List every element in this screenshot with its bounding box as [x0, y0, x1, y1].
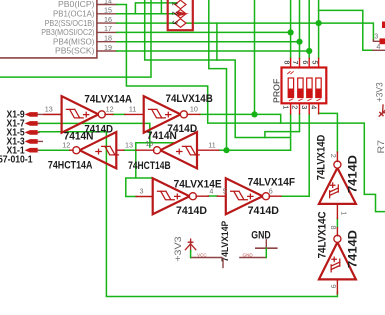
- svg-text:57-010-1: 57-010-1: [0, 155, 33, 166]
- svg-text:12: 12: [106, 105, 114, 114]
- svg-text:19: 19: [104, 43, 112, 52]
- svg-text:5: 5: [310, 60, 319, 64]
- svg-text:5: 5: [223, 187, 227, 196]
- wire around HCT14B text to gate E input: [126, 143, 176, 197]
- right connector JP pin3: [373, 40, 380, 41]
- svg-text:74LVX14P: 74LVX14P: [220, 220, 231, 261]
- inverter U2F 74LVX14F: [217, 178, 281, 214]
- svg-text:18: 18: [104, 34, 112, 43]
- wire H-A trunk y60 and staircase to pin11 dot: [145, 0, 291, 150]
- svg-text:74LVX14A: 74LVX14A: [84, 93, 132, 105]
- svg-text:1: 1: [170, 2, 177, 6]
- wire riser x254 down to gateB output junction: [254, 0, 256, 114]
- svg-text:PROF: PROF: [271, 79, 281, 103]
- svg-text:3: 3: [170, 21, 177, 25]
- svg-text:74LVX14B: 74LVX14B: [166, 93, 213, 105]
- DIP switch S1 switches: [288, 78, 321, 98]
- inverter U2C 74LVX14C (pointing up): [319, 228, 356, 294]
- wire riser x161 to pin15 line: [160, 0, 162, 14]
- svg-text:+3V3: +3V3: [375, 82, 385, 102]
- wire GND symbol to GND pin: [265, 248, 267, 257]
- inverter U2D 74LVX14D (pointing up): [319, 152, 356, 218]
- inverter U2B 74LVX14B: [125, 96, 200, 133]
- svg-text:R7: R7: [376, 140, 385, 154]
- svg-text:+3V3: +3V3: [173, 236, 184, 261]
- svg-text:16: 16: [104, 15, 112, 24]
- svg-text:14: 14: [104, 0, 112, 5]
- svg-text:PB5(SCK): PB5(SCK): [55, 46, 95, 56]
- svg-text:7: 7: [291, 60, 300, 64]
- IC U1 pin numbers 14-19: [104, 0, 112, 52]
- svg-text:2: 2: [170, 11, 177, 15]
- svg-text:11: 11: [208, 141, 215, 150]
- svg-text:74LVX14F: 74LVX14F: [248, 177, 296, 189]
- IC U1 pin labels PB0-PB5: [41, 0, 94, 56]
- IC U1 (ATmega) box: [0, 0, 97, 58]
- inverter U2A 74LVX14A: [44, 96, 113, 133]
- wire riser x151 to trunk y77: [0, 0, 151, 77]
- +3V3 supply symbol right edge (rotated): [376, 104, 385, 120]
- svg-text:74HCT14A: 74HCT14A: [48, 160, 93, 172]
- wire gate B out trunk: [200, 114, 281, 123]
- inverter U3B hysteresis symbol: [177, 146, 200, 155]
- inverter U2B hysteresis symbol: [149, 109, 171, 118]
- X1 labels: [7, 110, 25, 157]
- svg-text:6: 6: [301, 60, 310, 64]
- connector SV1 pin numbers: [170, 2, 177, 25]
- inverter U3A 74HCT14A (mirrored): [70, 132, 124, 168]
- svg-text:1: 1: [282, 105, 291, 109]
- svg-text:74LVX14E: 74LVX14E: [174, 178, 222, 190]
- junction dot4 pin16/DIP5: [316, 20, 322, 26]
- svg-text:74LVX14D: 74LVX14D: [316, 135, 328, 181]
- svg-text:3: 3: [140, 187, 144, 196]
- svg-text:7414D: 7414D: [248, 205, 280, 217]
- inverter U3A hysteresis symbol: [96, 146, 119, 155]
- DIP switch S1 actuator ticks: [288, 72, 321, 101]
- svg-text:7414N: 7414N: [64, 130, 94, 142]
- wire net PB3 (pin17 to DIP pin8 column): [117, 0, 291, 58]
- wire DIP pin3 bottom to gate F output: [281, 114, 309, 196]
- wire gate E out to gate F in: [208, 195, 217, 197]
- red fragment top right edge: [382, 22, 385, 29]
- svg-text:VCC: VCC: [197, 252, 207, 257]
- inverter U3B 74HCT14B (mirrored): [136, 132, 219, 168]
- power gate stub below label: [222, 259, 224, 268]
- X1 connector pins: [30, 114, 62, 150]
- DIP switch S1 PROF box: [282, 68, 327, 104]
- junction dot5 gateB out: [251, 111, 257, 117]
- inverter U2A hysteresis symbol: [66, 109, 88, 118]
- junction dot2 pin18/DIP7: [296, 39, 302, 45]
- svg-text:7414N: 7414N: [147, 130, 177, 142]
- wire net PB2 (pin16 through connector pin3 to right connector): [117, 22, 217, 24]
- svg-text:3: 3: [300, 105, 309, 109]
- svg-text:2: 2: [329, 154, 338, 158]
- svg-text:15: 15: [104, 6, 112, 15]
- svg-text:4: 4: [376, 42, 380, 51]
- GND symbol bottom: [256, 240, 277, 248]
- wire gate C input long net: [106, 132, 337, 297]
- DIP switch S1 bottom pin stubs 1,2,3,4: [291, 103, 319, 114]
- wire DIP pin4 bottom to gate D output: [319, 113, 338, 152]
- svg-text:8: 8: [282, 60, 291, 64]
- IC U1 pin stubs 14-19: [97, 5, 117, 52]
- svg-text:10: 10: [190, 105, 198, 114]
- wire gate D in / gate C out gap: [336, 218, 338, 227]
- power gate GND pin line: [240, 257, 266, 259]
- wire gate A out to gate B in: [113, 113, 125, 115]
- inverter U2F hysteresis symbol: [231, 191, 253, 200]
- wire net PB0 (pin14 staircase to long h-line y123): [117, 5, 385, 212]
- junction dot3 pin19/DIP6: [306, 48, 312, 54]
- svg-text:7414D: 7414D: [346, 155, 360, 193]
- junction dot1 pin17/DIP8: [288, 29, 294, 35]
- wire X1-5 net: [39, 131, 106, 133]
- DIP switch S1 top pin stubs 8,7,6,5: [291, 58, 319, 67]
- right connector JP pin3 pad: [380, 38, 385, 44]
- wire net PB4 (pin18 to DIP pin7 column): [117, 0, 300, 58]
- svg-text:17: 17: [104, 24, 112, 33]
- svg-text:7414D: 7414D: [346, 230, 360, 268]
- wire HCT14B.11 to junction dot: [219, 149, 227, 151]
- svg-text:13: 13: [125, 141, 133, 150]
- DIP switch S1 top pin numbers: [282, 60, 319, 64]
- svg-text:13: 13: [45, 105, 53, 114]
- connector SV1 pin diamonds: [175, 0, 186, 27]
- svg-text:7414D: 7414D: [176, 205, 207, 217]
- inverter U2E 74LVX14E: [136, 178, 208, 214]
- wire HCT14A.13 to HCT14B.10 gap: [124, 149, 136, 151]
- svg-text:4: 4: [310, 105, 319, 109]
- wire net PB1 (pin15 to connector pin2): [117, 13, 179, 15]
- svg-text:GND: GND: [243, 252, 254, 257]
- wire X1-7 net: [39, 123, 150, 147]
- wire net PB5 (pin19 to DIP pin6 column): [117, 0, 310, 58]
- svg-text:1: 1: [339, 211, 348, 215]
- svg-text:11: 11: [129, 105, 136, 114]
- inverter U2D hysteresis symbol: [330, 183, 339, 198]
- wire X1-1 net: [39, 149, 70, 151]
- inverter U2C hysteresis symbol: [331, 257, 340, 272]
- connector SV1 pin2 arrow: [178, 11, 189, 16]
- inverter U2E hysteresis symbol: [158, 191, 180, 200]
- power gate VCC pin line: [191, 257, 222, 259]
- +3V3 supply symbol bottom (arrow up): [185, 239, 195, 251]
- svg-text:3: 3: [374, 32, 378, 41]
- svg-text:2: 2: [291, 105, 300, 109]
- DIP switch S1 bottom pin numbers: [282, 105, 319, 109]
- wire DIP pin2 bottom branch: [265, 114, 300, 138]
- svg-text:9: 9: [329, 284, 338, 288]
- svg-text:74HCT14B: 74HCT14B: [128, 160, 171, 172]
- right connector JP pin4 line: [373, 49, 385, 51]
- wire right connector pin4 feed: [319, 10, 373, 50]
- X1 arrows: [25, 112, 38, 152]
- svg-text:GND: GND: [251, 230, 271, 242]
- wire +3V3 arrow to VCC pin: [190, 251, 192, 258]
- wire connector pin1 branch: [135, 3, 179, 14]
- svg-text:74LVX14C: 74LVX14C: [317, 211, 329, 258]
- svg-text:8: 8: [329, 226, 338, 230]
- junction dot6 HCT14B.11: [223, 147, 229, 153]
- connector SV1 top box: [168, 0, 193, 30]
- wire net DIP pin5 / right connector pin3 (h y23): [217, 0, 374, 60]
